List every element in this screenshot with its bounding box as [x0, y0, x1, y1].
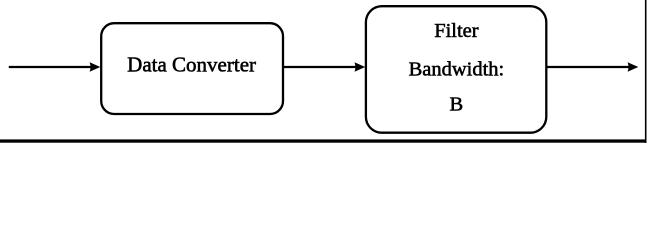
label Data Converter — [127, 52, 256, 76]
figure right border line — [645, 0, 647, 143]
svg-text:Filter: Filter — [434, 20, 479, 42]
label Bandwidth: — [409, 59, 505, 81]
wire arrow between blocks — [283, 62, 365, 72]
block Data Converter — [101, 23, 283, 114]
wire output arrow — [546, 62, 638, 72]
svg-text:B: B — [450, 94, 464, 116]
svg-text:Data Converter: Data Converter — [127, 52, 256, 76]
block Filter — [366, 6, 546, 133]
svg-text:Bandwidth:: Bandwidth: — [409, 59, 505, 81]
label Filter — [434, 20, 479, 42]
figure bottom rule — [0, 139, 647, 142]
label B — [450, 94, 464, 116]
wire input arrow — [9, 62, 101, 72]
